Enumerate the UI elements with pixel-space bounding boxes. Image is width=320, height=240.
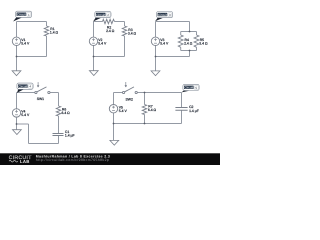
wire circuit5 R7 branch [144,93,146,124]
wire circuit5 top left [114,92,123,94]
wire circuit2 top right [115,21,125,23]
svg-text:Circuit: Circuit [158,13,167,17]
label C2 value [189,105,199,113]
logo CircuitLab [9,155,32,164]
svg-text:http://circuitlab.com/c/98bcm7: http://circuitlab.com/c/98bcm765h8k2p [36,158,109,162]
svg-text:5: 5 [195,86,197,90]
label box Circuit 2 [93,11,111,21]
wire circuit4 right branch [58,93,60,134]
svg-text:2.4 Ω: 2.4 Ω [184,42,193,46]
wire circuit4 top right [50,92,58,94]
wire circuit3 bottom stub [189,51,191,57]
wire circuit2 bottom [94,56,125,58]
wire circuit4 left [16,93,18,125]
label box Circuit 3 [155,12,173,22]
wire circuit2 top left [94,21,103,23]
wire circuit1 right [46,22,48,57]
wire circuit4 top left [17,92,35,94]
label V1 value [21,38,30,46]
label V2 value [98,38,107,46]
label C1 value [65,130,75,138]
svg-text:Circuit: Circuit [18,85,27,89]
wire circuit2 ground stem [93,57,95,71]
switch SW1 [35,82,50,94]
wire circuit1 top [17,21,47,23]
wire circuit5 bottom [114,123,182,125]
ground circuit 2 [89,71,98,76]
wire circuit1 bottom [17,56,47,58]
label R3 value [128,28,137,36]
svg-text:Circuit: Circuit [96,13,105,17]
wire circuit1 left [16,22,18,57]
svg-text:5.4 V: 5.4 V [98,42,107,46]
node circuit3 parallel bottom junction [189,50,191,52]
label R5 value [199,38,208,46]
resistor R4 [178,35,183,47]
node circuit5 ground junction [113,123,115,125]
label V4 value [21,110,30,118]
footer bar [0,153,220,165]
wire circuit2 right [124,22,126,57]
label R1 value [50,27,59,35]
svg-text:6.4 Ω: 6.4 Ω [62,111,71,115]
wire circuit3 bottom [156,56,190,58]
svg-text:SW2: SW2 [126,98,133,102]
svg-text:1.4 µF: 1.4 µF [65,134,75,138]
wire circuit5 top right [137,92,181,94]
ground circuit 1 [12,71,21,76]
svg-text:Circuit: Circuit [184,86,193,90]
svg-text:3.4 Ω: 3.4 Ω [199,42,208,46]
switch SW2 [123,82,138,94]
svg-text:4: 4 [29,85,31,89]
svg-text:5.4 V: 5.4 V [21,113,30,117]
svg-text:3: 3 [169,13,171,17]
wire circuit4 bottom jog [17,124,29,144]
wire circuit5 left [113,93,115,124]
node circuit3 ground junction [155,56,157,58]
voltage source V3 [151,37,159,45]
voltage source V1 [12,37,20,45]
resistor R2 [103,19,115,23]
svg-text:3.4 Ω: 3.4 Ω [128,32,137,36]
wire circuit4 ground stem [16,124,18,130]
svg-text:Circuit: Circuit [17,13,26,17]
node circuit5 R7 bottom junction [144,123,146,125]
wire circuit5 C2 branch [181,93,183,124]
wire circuit3 parallel rails [181,32,197,51]
label V5 value [119,105,128,113]
resistor R7 [142,105,146,115]
capacitor C2 [175,108,187,111]
svg-text:6.4 Ω: 6.4 Ω [148,108,157,112]
svg-text:LAB: LAB [20,159,30,164]
label box Circuit 5 [182,84,200,92]
wire circuit3 ground stem [155,57,157,71]
resistor R6 [56,106,60,116]
svg-text:1: 1 [28,13,30,17]
label V3 value [160,38,169,46]
label R4 value [184,38,193,46]
svg-text:1.4 µF: 1.4 µF [189,109,199,113]
resistor R5 [194,35,199,47]
voltage source V2 [89,37,97,45]
svg-text:SW1: SW1 [37,97,44,101]
node circuit2 ground junction [93,56,95,58]
wire circuit4 bottom [29,136,59,144]
label box Circuit 4 [17,83,33,93]
voltage source V4 [12,109,20,117]
wire circuit1 ground stem [16,57,18,71]
node circuit4 ground junction [16,123,18,125]
wire circuit3 left [155,22,157,57]
ground circuit 5 [110,140,119,145]
wire circuit5 ground stem [113,124,115,141]
resistor R1 [44,26,48,36]
node circuit3 parallel top junction [189,31,191,33]
label R2 value [106,25,115,33]
label R6 value [62,107,71,115]
node circuit1 ground junction [16,56,18,58]
svg-text:5.4 V: 5.4 V [160,42,169,46]
wire circuit3 right drop [189,22,191,32]
resistor R3 [122,26,126,36]
wire circuit3 top [156,21,190,23]
voltage source V5 [109,105,117,113]
svg-text:5.4 V: 5.4 V [119,109,128,113]
label R7 value [148,105,157,113]
svg-text:2.4 Ω: 2.4 Ω [106,29,115,33]
svg-text:1.4 Ω: 1.4 Ω [50,30,59,34]
svg-text:2: 2 [107,13,109,17]
ground circuit 3 [151,71,160,76]
svg-text:5.4 V: 5.4 V [21,42,30,46]
node circuit5 R7 top junction [144,92,146,94]
wire circuit2 left [93,22,95,57]
ground circuit 4 [13,130,22,135]
capacitor C1 [53,134,64,136]
label box Circuit 1 [13,11,32,21]
